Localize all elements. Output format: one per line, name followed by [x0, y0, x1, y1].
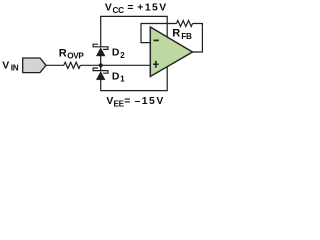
wire diode column between D2 anode and D1 cathode: [100, 56, 102, 71]
resistor RFB in feedback path: [177, 21, 193, 27]
svg-text:OVP: OVP: [67, 52, 84, 61]
svg-text:R: R: [59, 47, 67, 59]
op-amp inverting input marker -: [154, 39, 159, 41]
svg-text:V: V: [2, 60, 9, 71]
svg-text:V: V: [106, 96, 113, 107]
wire VEE rail from D1 anode column to op-amp V- pin: [101, 67, 168, 91]
junction node dot between D2 and D1: [99, 63, 103, 67]
svg-text:1: 1: [120, 75, 125, 84]
wire op-amp inverting input stub and feedback loop left/top: [141, 24, 177, 43]
op-amp non-inverting input marker +: [153, 61, 158, 68]
svg-text:V: V: [105, 3, 112, 14]
svg-text:–15V: –15V: [135, 96, 165, 107]
node VIN input terminal tag: [23, 58, 46, 73]
wire VCC rail from D2 cathode column to op-amp V+ pin: [101, 16, 168, 46]
wire from VIN tag to resistor ROVP: [46, 64, 64, 66]
diode D2 (schottky clamp to VCC): [93, 44, 108, 56]
op-amp U1: [150, 27, 192, 77]
svg-text:R: R: [172, 28, 180, 40]
diode D1 (schottky clamp to VEE): [93, 68, 108, 80]
svg-text:EE: EE: [114, 99, 125, 108]
svg-text:IN: IN: [11, 64, 19, 73]
resistor ROVP: [64, 62, 81, 68]
svg-text:D: D: [112, 48, 120, 59]
svg-text:+15V: +15V: [137, 3, 167, 14]
svg-text:=: =: [124, 96, 130, 107]
wire feedback loop right side down to op-amp output: [193, 24, 203, 53]
svg-text:=: =: [127, 3, 133, 14]
svg-text:CC: CC: [113, 6, 125, 15]
wire from ROVP through junction node to op-amp + input: [80, 64, 150, 66]
svg-text:D: D: [112, 71, 120, 82]
svg-text:FB: FB: [181, 32, 192, 41]
svg-text:2: 2: [120, 51, 125, 60]
